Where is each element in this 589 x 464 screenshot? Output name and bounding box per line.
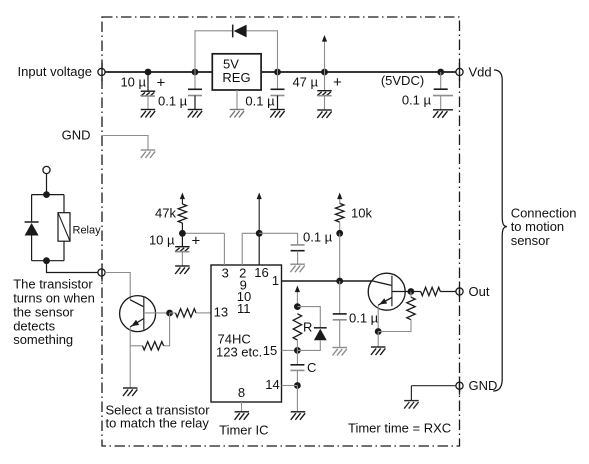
svg-text:turns on when: turns on when (13, 291, 95, 306)
wire pin3 up (223, 233, 225, 265)
wire pin3 to 47k node (182, 232, 224, 234)
wire diode branch lower (31, 235, 33, 260)
wire pin1 rail (282, 280, 373, 282)
terminal sensor signal (98, 269, 105, 276)
terminal input voltage (98, 68, 105, 75)
svg-text:Timer IC: Timer IC (219, 422, 268, 437)
svg-text:(5VDC): (5VDC) (381, 73, 424, 88)
svg-text:3: 3 (222, 266, 229, 281)
node relay top (43, 191, 50, 198)
wire relay to sensor terminal (47, 261, 99, 273)
capacitor 0.1u at Q2 base rail (339, 281, 341, 314)
border pass-through at input terminal (101, 63, 103, 81)
arrow R to Vdd (296, 290, 298, 307)
diode D2 relay flyback (25, 221, 39, 223)
ground for pin 8 (235, 412, 250, 420)
wire node to 0.1u IC cap (259, 233, 297, 245)
svg-text:15: 15 (263, 343, 277, 358)
diode D1 reverse bypass (232, 25, 234, 38)
ground for Q1 emitter (123, 388, 138, 396)
svg-text:Vdd: Vdd (469, 64, 492, 79)
ground for 0.1u reg-input cap (188, 110, 203, 118)
svg-text:47 µ: 47 µ (292, 75, 318, 90)
node Q2 collector (408, 288, 415, 295)
svg-text:something: something (13, 332, 73, 347)
node pin14 / C (294, 382, 301, 389)
border pass-through at Vdd terminal (459, 63, 461, 81)
svg-text:Timer time = RXC: Timer time = RXC (348, 421, 451, 436)
node 47u cap tap (321, 69, 328, 76)
svg-text:8: 8 (238, 385, 245, 400)
wire relay coil upper (63, 195, 65, 213)
node reg output / diode loop right (274, 69, 281, 76)
svg-text:+: + (192, 233, 201, 250)
wire reg ground pin (236, 90, 238, 109)
transistor Q1 (120, 296, 156, 332)
wire Q1 base lead (144, 312, 170, 314)
wire GND terminal (411, 385, 456, 387)
timer IC U1 74HC123 (211, 265, 282, 402)
wire GND to ground symbol (410, 386, 412, 401)
wire collector to RE (410, 292, 412, 298)
svg-text:REG: REG (222, 70, 250, 85)
svg-text:0.1 µ: 0.1 µ (402, 93, 432, 108)
wire relay top (46, 173, 48, 194)
wire Q1 emitter down (129, 327, 131, 388)
svg-text:0.1 µ: 0.1 µ (158, 94, 188, 109)
wire pin15 lead (282, 349, 298, 351)
wire C node to ground (296, 386, 298, 412)
wire 10k down to pin1 rail (339, 233, 341, 281)
node Q1 base (166, 310, 173, 317)
resistor 10k (336, 203, 344, 222)
resistor RE emitter (407, 297, 415, 320)
wire GND input to ground (103, 136, 148, 150)
capacitor 10u input electrolytic (147, 72, 149, 91)
resistor 47k (178, 204, 186, 223)
capacitor 0.1u at reg output (277, 72, 279, 89)
node R top / diode (294, 303, 301, 310)
wire Vdd rail left (input to 5V REG) (105, 71, 212, 73)
diode D3 across R (314, 327, 327, 329)
node 47k / 10u / pin3 (179, 230, 186, 237)
svg-text:14: 14 (265, 377, 279, 392)
svg-text:1: 1 (272, 273, 279, 288)
regulator U2 5V REG (212, 54, 261, 90)
resistor RBE base-emitter (142, 342, 163, 350)
wire diode branch upper (31, 195, 33, 222)
svg-text:16: 16 (254, 265, 268, 280)
svg-text:+: + (333, 74, 342, 91)
terminal Vdd (456, 68, 463, 75)
wire RBE to emitter (130, 345, 142, 347)
wire Q1 base to RB (170, 312, 176, 314)
node relay bottom (43, 257, 50, 264)
svg-text:R: R (303, 320, 312, 335)
wire 10k to node (339, 222, 341, 233)
resistor RB base series (176, 309, 197, 317)
ground for GND terminal (404, 401, 419, 409)
brace connection to motion sensor (493, 70, 507, 391)
ground for timing network (291, 412, 306, 420)
svg-text:13: 13 (214, 305, 228, 320)
arrow 47k to Vdd (181, 197, 183, 205)
ground for Q2 rail cap (332, 348, 347, 356)
node reg input / diode loop left (192, 69, 199, 76)
svg-text:GND: GND (469, 378, 498, 393)
svg-text:10 µ: 10 µ (120, 75, 146, 90)
ground for 47u cap (317, 110, 332, 118)
ground for GND input (141, 150, 156, 158)
capacitor 47u electrolytic (324, 72, 326, 91)
svg-text:to match the relay: to match the relay (106, 415, 210, 430)
svg-text:Out: Out (469, 284, 490, 299)
arrow pins 2-16 to Vdd (258, 197, 260, 234)
capacitor 0.1u IC decoupling (291, 244, 305, 246)
svg-text:123 etc.: 123 etc. (216, 345, 262, 360)
capacitor C timing (296, 350, 298, 364)
wire diode branch top (297, 307, 320, 328)
svg-text:detects: detects (13, 318, 55, 333)
svg-text:0.1 µ: 0.1 µ (349, 311, 379, 326)
node Q2 emitter (375, 328, 382, 335)
svg-text:C: C (307, 360, 316, 375)
wire RE to emitter node (378, 320, 411, 332)
resistor R timing (293, 314, 301, 340)
wire pin8 to ground (241, 402, 243, 412)
arrow 10k to Vdd (339, 197, 341, 204)
ground for Vdd 0.1u cap (433, 110, 453, 118)
resistor Rout output series (421, 287, 441, 295)
capacitor 0.1u at Vdd terminal (440, 72, 442, 89)
svg-text:sensor: sensor (511, 233, 551, 248)
svg-text:0.1 µ: 0.1 µ (245, 94, 275, 109)
wire Q2 emitter to ground (377, 332, 379, 348)
wire RB to pin13 (196, 312, 211, 314)
ground for 0.1u reg-output cap (270, 110, 285, 118)
ground for 10u input cap (141, 110, 156, 118)
wire Rout to Out terminal (440, 291, 456, 293)
wire diode bypass loop right (246, 31, 277, 72)
wire Q2 emitter down (377, 305, 379, 331)
dashed enclosure border (102, 17, 460, 446)
wire collector to Rout (411, 291, 421, 293)
svg-text:11: 11 (237, 301, 251, 316)
svg-text:0.1 µ: 0.1 µ (303, 230, 333, 245)
node pin15 / R / C (294, 347, 301, 354)
svg-text:GND: GND (62, 128, 91, 143)
wire relay top rail (32, 194, 64, 196)
svg-text:10k: 10k (351, 206, 372, 221)
svg-text:+: + (157, 75, 166, 92)
border pass-through at sensor terminal (101, 264, 103, 282)
svg-text:10 µ: 10 µ (149, 232, 175, 247)
node pins 2-16 (256, 230, 263, 237)
terminal GND out (456, 382, 463, 389)
ground for 5V REG (230, 110, 245, 118)
wire diode bypass loop left (195, 31, 233, 72)
wire R bottom (296, 340, 298, 350)
node 10u cap tap (145, 69, 152, 76)
wire pin2 to pin16 node (242, 233, 259, 265)
node pin1 / 10k / 0.1u (336, 278, 343, 285)
terminal Out (456, 288, 463, 295)
transistor Q2 (368, 273, 405, 310)
wire pin16 up (258, 233, 260, 265)
wire Q2 collector lead (392, 291, 411, 293)
terminal relay supply (43, 166, 50, 173)
node 10k top (336, 230, 343, 237)
svg-text:47k: 47k (155, 206, 176, 221)
svg-text:the sensor: the sensor (13, 304, 74, 319)
svg-text:Relay: Relay (73, 224, 102, 236)
ground for 10u timing cap (175, 266, 190, 274)
wire Q1 base to RBE (164, 313, 170, 346)
capacitor 0.1u at reg input (194, 72, 196, 89)
node 0.1u cap tap (5VDC) (437, 69, 444, 76)
wire relay bottom rail (32, 260, 64, 262)
wire Vdd rail right (5V REG to Vdd) (261, 71, 456, 73)
wire 47k to node (181, 223, 183, 233)
svg-text:The transistor: The transistor (13, 277, 93, 292)
arrow Vdd rail up (324, 39, 326, 72)
ground for IC decoupling cap (290, 264, 305, 272)
wire pin14 lead (282, 385, 298, 387)
wire sensor terminal to Q1 collector (105, 273, 130, 300)
wire relay coil lower (63, 241, 65, 261)
border pass-through at GND terminal (459, 377, 461, 395)
wire diode branch bottom (297, 340, 320, 350)
capacitor 10u timing electrolytic (181, 233, 183, 246)
svg-text:Input voltage: Input voltage (18, 64, 92, 79)
relay K1 coil (58, 213, 70, 242)
border pass-through at Out terminal (459, 283, 461, 301)
ground for Q2 emitter (371, 347, 386, 355)
